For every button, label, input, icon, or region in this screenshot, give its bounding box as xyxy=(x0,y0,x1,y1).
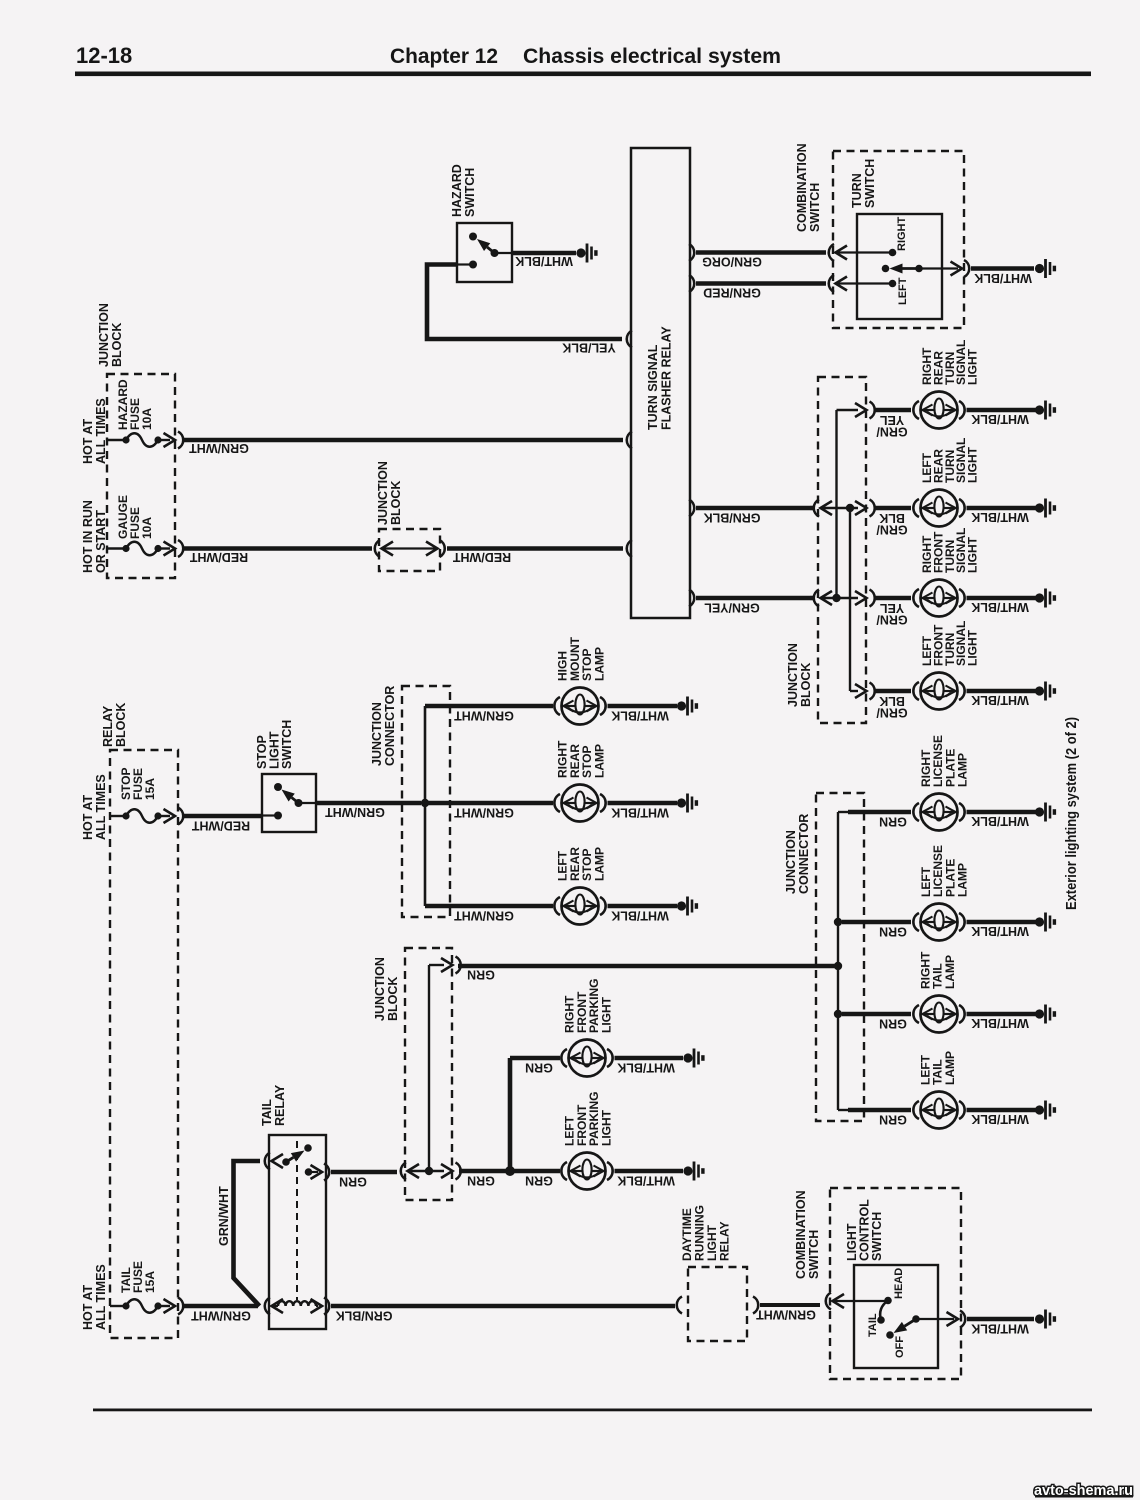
svg-text:SWITCH: SWITCH xyxy=(807,1230,821,1279)
svg-text:CONNECTOR: CONNECTOR xyxy=(797,814,811,894)
svg-text:15A: 15A xyxy=(143,778,157,800)
svg-text:RED/WHT: RED/WHT xyxy=(452,550,511,564)
svg-text:JUNCTION: JUNCTION xyxy=(376,461,390,525)
svg-text:WHT/BLK: WHT/BLK xyxy=(971,1112,1029,1126)
svg-text:JUNCTION: JUNCTION xyxy=(373,957,387,1021)
svg-text:TAIL: TAIL xyxy=(260,1099,274,1126)
svg-text:SWITCH: SWITCH xyxy=(463,168,477,217)
svg-text:LIGHT: LIGHT xyxy=(966,629,980,666)
svg-text:BLOCK: BLOCK xyxy=(110,323,124,367)
svg-text:WHT/BLK: WHT/BLK xyxy=(515,254,573,268)
svg-text:HOT AT: HOT AT xyxy=(81,1285,95,1330)
svg-text:LAMP: LAMP xyxy=(592,744,606,778)
svg-text:BLK: BLK xyxy=(879,511,905,525)
svg-text:10A: 10A xyxy=(140,517,154,539)
svg-text:RELAY: RELAY xyxy=(273,1084,287,1126)
svg-text:GRN: GRN xyxy=(525,1061,553,1075)
svg-text:12-18: 12-18 xyxy=(76,43,132,68)
svg-text:TAIL: TAIL xyxy=(867,1313,879,1337)
svg-text:LAMP: LAMP xyxy=(592,847,606,881)
svg-text:10A: 10A xyxy=(140,408,154,430)
svg-text:avto-shema.ru: avto-shema.ru xyxy=(1034,1482,1133,1499)
svg-text:WHT/BLK: WHT/BLK xyxy=(971,1016,1029,1030)
svg-text:RED/WHT: RED/WHT xyxy=(191,819,250,833)
svg-text:LAMP: LAMP xyxy=(956,863,970,897)
svg-text:GRN/WHT: GRN/WHT xyxy=(756,1308,816,1322)
svg-text:WHT/BLK: WHT/BLK xyxy=(971,814,1029,828)
svg-text:GRN/RED: GRN/RED xyxy=(703,286,761,300)
svg-text:LAMP: LAMP xyxy=(956,753,970,787)
svg-text:YEL: YEL xyxy=(879,601,904,615)
svg-text:BLOCK: BLOCK xyxy=(799,663,813,707)
svg-text:GRN/WHT: GRN/WHT xyxy=(189,441,249,455)
svg-text:GRN: GRN xyxy=(879,1113,907,1127)
svg-text:LIGHT: LIGHT xyxy=(599,1109,613,1146)
svg-text:WHT/BLK: WHT/BLK xyxy=(611,806,669,820)
svg-text:Chapter 12: Chapter 12 xyxy=(390,45,498,68)
svg-text:HOT AT: HOT AT xyxy=(81,419,95,464)
svg-text:Chassis electrical system: Chassis electrical system xyxy=(523,45,781,68)
svg-text:LIGHT: LIGHT xyxy=(599,996,613,1033)
svg-text:LIGHT: LIGHT xyxy=(966,348,980,385)
svg-text:WHT/BLK: WHT/BLK xyxy=(971,1322,1029,1336)
svg-text:SWITCH: SWITCH xyxy=(808,183,822,232)
svg-text:15A: 15A xyxy=(143,1271,157,1293)
svg-text:GRN: GRN xyxy=(879,815,907,829)
svg-text:LAMP: LAMP xyxy=(592,647,606,681)
svg-text:LIGHT: LIGHT xyxy=(966,536,980,573)
svg-text:JUNCTION: JUNCTION xyxy=(370,702,384,766)
svg-text:GRN/WHT: GRN/WHT xyxy=(217,1186,231,1246)
svg-text:GRN: GRN xyxy=(525,1174,553,1188)
svg-text:OR START: OR START xyxy=(94,510,108,573)
svg-text:YEL: YEL xyxy=(879,413,904,427)
svg-text:LAMP: LAMP xyxy=(943,955,957,989)
svg-text:TURN SIGNAL: TURN SIGNAL xyxy=(646,344,660,430)
svg-text:HAZARD: HAZARD xyxy=(450,164,464,217)
svg-text:BLOCK: BLOCK xyxy=(114,703,128,747)
svg-text:GRN: GRN xyxy=(879,925,907,939)
svg-text:LEFT: LEFT xyxy=(897,277,909,305)
svg-text:GRN: GRN xyxy=(879,1017,907,1031)
svg-text:COMBINATION: COMBINATION xyxy=(795,143,809,232)
svg-text:LAMP: LAMP xyxy=(943,1051,957,1085)
svg-text:LIGHT: LIGHT xyxy=(966,446,980,483)
svg-text:GRN/BLK: GRN/BLK xyxy=(336,1309,393,1323)
svg-text:WHT/BLK: WHT/BLK xyxy=(971,600,1029,614)
svg-text:JUNCTION: JUNCTION xyxy=(784,830,798,894)
svg-text:RELAY: RELAY xyxy=(718,1221,732,1261)
svg-text:ALL TIMES: ALL TIMES xyxy=(94,398,108,464)
svg-text:GRN/YEL: GRN/YEL xyxy=(704,601,760,615)
svg-text:HOT IN RUN: HOT IN RUN xyxy=(81,500,95,573)
svg-text:GRN/WHT: GRN/WHT xyxy=(191,1309,251,1323)
svg-text:GRN/BLK: GRN/BLK xyxy=(704,511,761,525)
svg-text:WHT/BLK: WHT/BLK xyxy=(971,924,1029,938)
svg-text:WHT/BLK: WHT/BLK xyxy=(974,271,1032,285)
svg-text:RED/WHT: RED/WHT xyxy=(189,550,248,564)
svg-text:JUNCTION: JUNCTION xyxy=(97,303,111,367)
svg-text:WHT/BLK: WHT/BLK xyxy=(611,909,669,923)
svg-text:BLK: BLK xyxy=(879,694,905,708)
svg-text:WHT/BLK: WHT/BLK xyxy=(971,693,1029,707)
svg-text:RIGHT: RIGHT xyxy=(896,217,908,252)
svg-text:COMBINATION: COMBINATION xyxy=(794,1190,808,1279)
svg-text:YEL/BLK: YEL/BLK xyxy=(562,341,615,355)
svg-text:WHT/BLK: WHT/BLK xyxy=(971,412,1029,426)
svg-text:RELAY: RELAY xyxy=(101,705,115,747)
svg-text:SWITCH: SWITCH xyxy=(863,159,877,208)
svg-text:WHT/BLK: WHT/BLK xyxy=(971,510,1029,524)
svg-text:GRN/ORG: GRN/ORG xyxy=(702,255,762,269)
svg-text:ALL TIMES: ALL TIMES xyxy=(94,1264,108,1330)
svg-text:GRN/WHT: GRN/WHT xyxy=(454,709,514,723)
svg-text:TURN: TURN xyxy=(850,173,864,208)
svg-text:GRN/WHT: GRN/WHT xyxy=(325,805,385,819)
svg-text:OFF: OFF xyxy=(894,1336,906,1358)
svg-text:SWITCH: SWITCH xyxy=(280,720,294,769)
svg-text:WHT/BLK: WHT/BLK xyxy=(617,1061,675,1075)
svg-text:Exterior lighting system (2 of: Exterior lighting system (2 of 2) xyxy=(1063,717,1080,910)
svg-text:CONNECTOR: CONNECTOR xyxy=(383,686,397,766)
svg-text:HOT AT: HOT AT xyxy=(81,795,95,840)
svg-text:SWITCH: SWITCH xyxy=(870,1212,884,1261)
svg-text:GRN/WHT: GRN/WHT xyxy=(454,909,514,923)
svg-text:HEAD: HEAD xyxy=(893,1268,905,1299)
svg-text:GRN: GRN xyxy=(467,968,495,982)
svg-text:BLOCK: BLOCK xyxy=(389,481,403,525)
svg-text:BLOCK: BLOCK xyxy=(386,977,400,1021)
svg-text:WHT/BLK: WHT/BLK xyxy=(611,709,669,723)
svg-text:JUNCTION: JUNCTION xyxy=(786,643,800,707)
svg-text:GRN: GRN xyxy=(467,1174,495,1188)
svg-text:FLASHER RELAY: FLASHER RELAY xyxy=(660,326,674,430)
svg-text:WHT/BLK: WHT/BLK xyxy=(617,1174,675,1188)
svg-text:ALL TIMES: ALL TIMES xyxy=(94,774,108,840)
svg-text:GRN/WHT: GRN/WHT xyxy=(454,806,514,820)
svg-text:GRN: GRN xyxy=(339,1175,367,1189)
